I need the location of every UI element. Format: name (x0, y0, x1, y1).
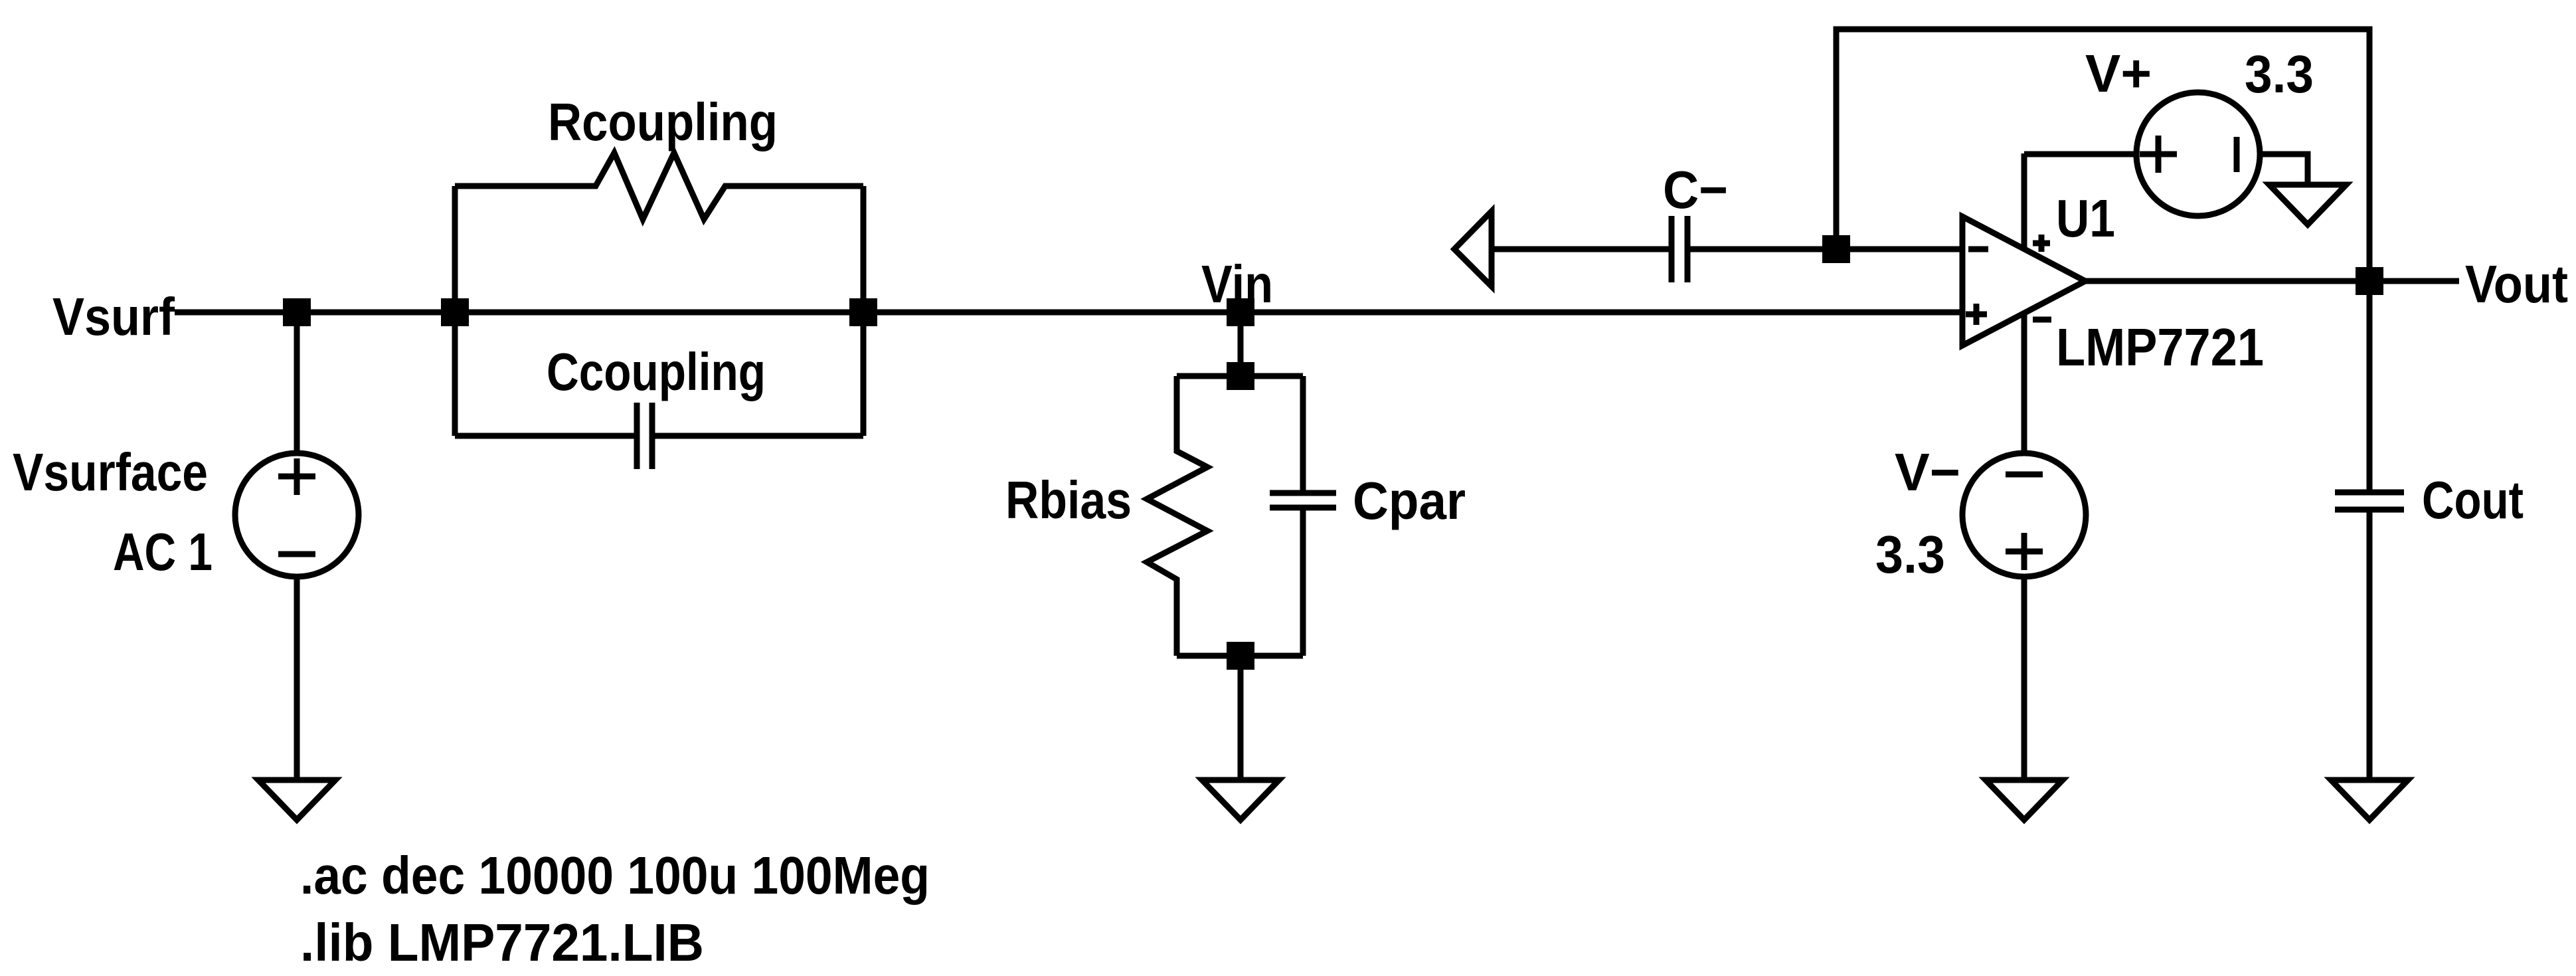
ground (V+) (2269, 185, 2346, 225)
wire Vin node to ground (1238, 656, 1244, 780)
svg-text:U1: U1 (2056, 189, 2115, 248)
wire feedback loop top (1836, 29, 2369, 281)
wire Vin down to bias network (1238, 312, 1244, 376)
wire arrow shaft to C- (1492, 246, 1669, 252)
wire Vout down to Cout (2367, 281, 2373, 490)
wire Cout to ground (2367, 512, 2373, 780)
voltage source Vsurface (235, 453, 359, 577)
ground (Vin bias) (1202, 780, 1279, 820)
wire Vsurface to ground (294, 577, 300, 780)
ground (Cout) (2331, 780, 2408, 820)
svg-text:Vsurf: Vsurf (52, 287, 175, 346)
wire V+ source to ground (2260, 154, 2308, 185)
junction inverting/feedback node (1822, 235, 1850, 263)
wire op-amp output to Vout (2085, 278, 2459, 284)
capacitor Ccoupling (455, 403, 863, 469)
wire V+ pin of op-amp (2021, 153, 2027, 247)
voltage source V+ (2136, 92, 2260, 216)
wire V+ source to op-amp (2024, 151, 2136, 157)
junction Vout node (2356, 267, 2383, 295)
wire bias box bottom edge (1177, 653, 1303, 659)
voltage source V- (1962, 453, 2086, 577)
wire main Vsurf-to-opamp noninverting input (175, 310, 1962, 316)
wire V- pin of op-amp (2021, 315, 2027, 453)
junction RC box right (849, 298, 877, 326)
junction Vin node (1227, 298, 1254, 326)
junction bias box top (1227, 362, 1254, 390)
capacitor C- (1672, 216, 1687, 282)
resistor Rcoupling (455, 153, 863, 219)
op-amp inverting input minus sign (1968, 246, 1988, 252)
wire bias box top edge (1177, 373, 1303, 379)
op-amp V+ pin plus marker (2033, 235, 2050, 252)
svg-text:.ac dec 10000 100u 100Meg: .ac dec 10000 100u 100Meg (300, 846, 930, 905)
wire C- to inverting input (1690, 246, 1962, 252)
op-amp U1 triangle (1962, 217, 2085, 345)
wire RC box left edge (452, 186, 458, 436)
svg-text:V+: V+ (2085, 44, 2152, 103)
junction Vsurf node (283, 298, 311, 326)
svg-text:Vout: Vout (2465, 254, 2568, 314)
svg-text:3.3: 3.3 (2245, 45, 2314, 104)
arrow head of C- branch (1454, 211, 1492, 286)
op-amp V- pin minus marker (2033, 317, 2051, 323)
svg-text:.lib LMP7721.LIB: .lib LMP7721.LIB (300, 913, 704, 972)
svg-text:LMP7721: LMP7721 (2056, 318, 2264, 377)
svg-text:AC 1: AC 1 (113, 522, 213, 581)
capacitor Cpar (1270, 376, 1336, 656)
ground (V-) (1986, 780, 2063, 820)
svg-text:Rcoupling: Rcoupling (548, 92, 778, 151)
svg-text:V−: V− (1895, 442, 1960, 502)
svg-text:Ccoupling: Ccoupling (547, 342, 766, 401)
svg-text:C−: C− (1663, 160, 1728, 219)
wire Vsurf node down to Vsurface source (294, 312, 300, 454)
svg-text:3.3: 3.3 (1875, 525, 1945, 584)
svg-text:Vin: Vin (1201, 254, 1273, 314)
svg-text:Cpar: Cpar (1353, 471, 1466, 530)
wire RC box right edge (861, 186, 867, 436)
wire V- source to ground (2021, 577, 2027, 780)
resistor Rbias (1147, 376, 1207, 656)
svg-text:Rbias: Rbias (1005, 470, 1132, 530)
junction RC box left (441, 298, 469, 326)
op-amp noninverting input plus sign (1966, 304, 1987, 325)
ground (Vsurface) (258, 780, 335, 820)
svg-text:Vsurface: Vsurface (13, 442, 208, 502)
junction bias box bottom (1227, 642, 1254, 670)
capacitor Cout (2335, 492, 2404, 510)
svg-text:Cout: Cout (2422, 470, 2524, 530)
